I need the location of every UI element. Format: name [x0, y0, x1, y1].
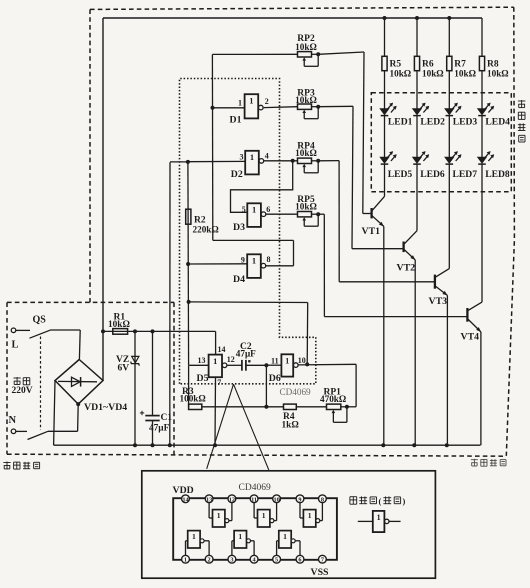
- inverter D3: [233, 203, 270, 233]
- wire column LED to VT3 collector: [448, 164, 450, 268]
- svg-text:C1: C1: [161, 413, 173, 423]
- label VSS: [311, 567, 330, 578]
- svg-text:5: 5: [275, 557, 278, 564]
- transistor VT4: [461, 302, 483, 342]
- pinout inverter gate pins 11-10: [254, 503, 277, 527]
- node VZ to ground rail: [133, 443, 137, 447]
- svg-text:11: 11: [271, 357, 279, 366]
- power supply box dashed top edge: [7, 301, 174, 303]
- wire RP2 right to VT1 base: [318, 52, 371, 214]
- node VT1 emitter ground junction: [381, 443, 385, 447]
- inverter D6: [266, 354, 305, 384]
- svg-text:9: 9: [241, 256, 245, 265]
- node C1 to ground rail: [151, 443, 155, 447]
- wire column LED to VT4 collector: [481, 164, 483, 302]
- power supply box dashed right edge: [173, 302, 175, 455]
- svg-text:1: 1: [238, 99, 242, 108]
- pin 9 circle: [296, 495, 304, 503]
- svg-text:1: 1: [262, 511, 266, 520]
- svg-text:LED1: LED1: [388, 117, 413, 128]
- pin 4 circle: [250, 555, 258, 563]
- svg-text:1: 1: [283, 532, 287, 541]
- svg-text:N: N: [9, 415, 17, 426]
- label inverter (fan xiang qi / NOT gate): [350, 496, 406, 506]
- svg-text:10: 10: [273, 496, 279, 503]
- wire column LED to VT1 collector: [384, 164, 386, 196]
- svg-text:10kΩ: 10kΩ: [487, 69, 509, 79]
- svg-text:1: 1: [377, 513, 381, 522]
- svg-text:8: 8: [267, 255, 271, 264]
- svg-text:D5: D5: [197, 373, 209, 384]
- wire VT1 emitter to ground rail: [383, 226, 385, 445]
- svg-text:6V: 6V: [118, 364, 130, 374]
- wire RP4 right to VT3 base: [318, 161, 434, 282]
- LED LED8: [478, 151, 510, 180]
- node feedback junction on R2 chain: [187, 300, 191, 304]
- svg-text:LED7: LED7: [453, 169, 478, 180]
- wire RP1 right lead: [347, 406, 356, 408]
- LED LED7: [445, 151, 477, 180]
- wire from bridge AC bottom to switch: [77, 404, 80, 431]
- LED display box dashed outline: [371, 93, 511, 192]
- wire VT2 emitter to ground rail: [414, 260, 416, 445]
- svg-text:2: 2: [208, 557, 211, 564]
- svg-text:10kΩ: 10kΩ: [390, 69, 412, 79]
- LED LED3: [445, 103, 478, 128]
- wire C2 node down to R3-R4 junction: [265, 365, 267, 407]
- wire R2 chain vertical (D2-in / R2 / D4-in / D5-in): [187, 162, 190, 365]
- svg-text:3: 3: [230, 557, 233, 564]
- svg-text:13: 13: [198, 356, 206, 365]
- svg-text:D1: D1: [230, 114, 242, 125]
- inverter D5: [189, 355, 235, 384]
- svg-text:6: 6: [298, 557, 301, 564]
- CD4069 IC dotted outline: [180, 79, 316, 384]
- node junction of bridge + with R1 wire: [101, 329, 105, 333]
- callout line left from IC outline to pinout box: [207, 384, 234, 469]
- svg-text:CD4069: CD4069: [239, 483, 271, 493]
- wire D5 pin 7 to ground: [215, 377, 221, 445]
- wire RP2-left / D1-in / D4-out vertical: [211, 54, 213, 240]
- resistor R8: [479, 18, 508, 109]
- label CD4069 (IC designator near D6): [280, 387, 312, 397]
- svg-text:LED4: LED4: [485, 117, 510, 128]
- svg-text:7: 7: [217, 378, 221, 387]
- capacitor C1: [140, 331, 173, 445]
- svg-text:1: 1: [213, 356, 217, 366]
- svg-text:VSS: VSS: [311, 567, 330, 578]
- resistor R5: [382, 18, 411, 109]
- power supply box dashed left edge: [6, 302, 8, 454]
- svg-text:12: 12: [229, 496, 235, 503]
- wire bridge - output to ground rail: [54, 381, 55, 446]
- svg-text:1: 1: [184, 557, 187, 564]
- wire column between LED rows col4: [481, 116, 483, 158]
- pinout inverter gate pins 5-6: [277, 531, 300, 556]
- label QS: [33, 315, 47, 326]
- capacitor C2: [227, 342, 267, 371]
- label AC 220V: [12, 377, 33, 396]
- bottom dashed border shared by power and control boxes: [7, 454, 506, 456]
- svg-text:VT2: VT2: [397, 262, 416, 273]
- svg-text:LED5: LED5: [388, 169, 413, 180]
- wire column between LED rows col3: [448, 116, 450, 158]
- terminal L: [11, 328, 18, 351]
- svg-text:1: 1: [252, 256, 256, 266]
- svg-text:9: 9: [298, 496, 301, 503]
- LED LED4: [478, 103, 511, 128]
- pin 11 circle: [250, 495, 258, 503]
- svg-text:8: 8: [321, 496, 324, 503]
- wire ground bottom rail: [54, 444, 481, 446]
- svg-text:): ): [403, 496, 406, 506]
- wire D6 output to RP1 right side: [298, 364, 356, 407]
- wire D2 output to RP4: [264, 160, 298, 162]
- svg-text:11: 11: [251, 496, 257, 503]
- svg-text:10kΩ: 10kΩ: [295, 95, 317, 105]
- node bridge AC bottom junction: [76, 402, 80, 406]
- potentiometer RP5: [295, 195, 320, 226]
- label VDD: [173, 485, 194, 496]
- terminal N: [9, 415, 17, 434]
- svg-text:QS: QS: [33, 315, 47, 326]
- node top rail to R7 column: [447, 16, 451, 20]
- svg-text:D2: D2: [231, 169, 243, 180]
- svg-text:6: 6: [266, 205, 270, 214]
- pin 1 circle: [182, 555, 190, 563]
- svg-text:10kΩ: 10kΩ: [295, 148, 317, 158]
- svg-text:10kΩ: 10kΩ: [454, 69, 476, 79]
- pin 12 circle: [228, 495, 236, 503]
- switch QS lower blade: [16, 431, 78, 439]
- svg-text:1: 1: [249, 96, 253, 106]
- wire column LED to VT2 collector: [416, 164, 418, 231]
- svg-text:D3: D3: [233, 222, 245, 233]
- svg-text:220V: 220V: [12, 386, 33, 396]
- svg-text:(: (: [379, 496, 382, 506]
- resistor R7: [447, 18, 476, 109]
- potentiometer RP3: [295, 89, 320, 119]
- potentiometer RP2: [212, 34, 320, 67]
- wire +6V to D5 pin 14: [216, 331, 226, 354]
- switch QS upper blade: [16, 330, 80, 338]
- pin 13 circle: [205, 495, 213, 503]
- inverter D2: [188, 151, 269, 180]
- pin 2 circle: [205, 555, 213, 563]
- svg-text:LED6: LED6: [420, 169, 445, 180]
- node D1 input junction: [211, 106, 215, 110]
- node x170 line to ground rail: [168, 443, 172, 447]
- svg-text:1: 1: [252, 205, 256, 215]
- resistor R2: [186, 209, 219, 234]
- svg-text:1: 1: [250, 152, 254, 162]
- node D4 input junction: [186, 262, 190, 266]
- svg-text:D6: D6: [269, 373, 281, 384]
- svg-text:47μF: 47μF: [236, 349, 256, 359]
- potentiometer RP4: [295, 142, 320, 173]
- pin 5 circle: [273, 555, 281, 563]
- wire from switch to bridge AC top: [78, 330, 81, 360]
- node VT3 emitter ground junction: [445, 443, 449, 447]
- svg-text:VT3: VT3: [429, 296, 448, 307]
- zener diode VZ: [116, 331, 139, 445]
- svg-text:VDD: VDD: [173, 485, 194, 496]
- node R1 wire to C1 junction: [151, 329, 155, 333]
- control circuit dashed border (left edge): [89, 9, 91, 302]
- svg-text:4: 4: [265, 152, 269, 161]
- wire oscillator feedback horizontal y302: [189, 302, 308, 365]
- wire RP3 right to VT2 base: [318, 106, 403, 248]
- node R1 to VZ junction: [133, 329, 137, 333]
- callout line right from IC outline to pinout box: [234, 384, 269, 470]
- svg-text:VT1: VT1: [362, 226, 381, 237]
- wire +V top rail: [103, 17, 482, 19]
- LED LED5: [380, 151, 412, 180]
- node VT2 emitter ground junction: [412, 443, 416, 447]
- node C2 / D6 input / R4 junction: [264, 363, 268, 367]
- svg-text:10: 10: [298, 356, 306, 365]
- pinout inverter gate pins 13-12: [209, 503, 232, 527]
- node top rail to R6 column: [415, 16, 419, 20]
- svg-text:1: 1: [192, 532, 196, 541]
- resistor R3: [180, 365, 267, 409]
- svg-text:VT4: VT4: [461, 331, 480, 342]
- node R3/R4 junction: [264, 405, 268, 409]
- label control circuit (kong zhi xian lu): [471, 459, 506, 466]
- svg-text:47μF: 47μF: [149, 424, 170, 434]
- LED LED2: [413, 103, 446, 128]
- pinout inverter gate pins 1-2: [186, 531, 210, 556]
- wire VT3 emitter to ground rail: [446, 295, 448, 445]
- svg-text:10kΩ: 10kΩ: [108, 320, 130, 330]
- wire D3 output to RP5: [266, 213, 298, 215]
- wire column between LED rows col1: [384, 116, 386, 158]
- node pin7 ground junction: [213, 443, 217, 447]
- CD4069 pinout outer box: [142, 471, 436, 578]
- resistor R4: [266, 404, 326, 430]
- potentiometer RP1: [320, 387, 349, 422]
- switch QS linkage dashed line: [40, 337, 42, 431]
- svg-text:7: 7: [321, 557, 324, 564]
- resistor R1: [103, 313, 216, 335]
- pin 7 circle: [319, 555, 327, 563]
- wire column between LED rows col2: [416, 116, 418, 158]
- node D6 output junction: [305, 362, 309, 366]
- pinout inverter gate pins 9-8: [300, 503, 322, 527]
- svg-text:1: 1: [308, 511, 312, 520]
- svg-text:13: 13: [206, 496, 212, 503]
- svg-text:10kΩ: 10kΩ: [295, 42, 317, 52]
- svg-text:L: L: [12, 340, 19, 351]
- svg-text:1: 1: [285, 357, 289, 366]
- svg-text:VD1~VD4: VD1~VD4: [84, 402, 127, 413]
- svg-text:470kΩ: 470kΩ: [320, 394, 346, 404]
- resistor R6: [414, 18, 443, 109]
- pin 6 circle: [296, 555, 304, 563]
- svg-text:LED3: LED3: [453, 117, 478, 128]
- svg-text:10kΩ: 10kΩ: [422, 69, 444, 79]
- pinout inverter gate pins 3-4: [232, 531, 254, 556]
- pin 10 circle: [273, 495, 281, 503]
- wire D1 output to RP3: [264, 106, 298, 109]
- node top rail to R5 column: [383, 16, 387, 20]
- wire RP5 right to VT4 base: [318, 214, 466, 316]
- standalone inverter symbol: [358, 511, 401, 532]
- inverter D1: [213, 94, 269, 125]
- svg-text:D4: D4: [233, 274, 245, 285]
- LED LED1: [380, 103, 413, 128]
- svg-text:1: 1: [217, 511, 221, 520]
- bridge rectifier VD1~VD4: [55, 360, 103, 405]
- wire D2 input to ground-side vertical: [170, 162, 188, 445]
- label VD1~VD4: [84, 402, 127, 413]
- svg-text:12: 12: [227, 355, 235, 364]
- svg-text:14: 14: [218, 345, 226, 354]
- pin 14 circle: [182, 495, 190, 503]
- svg-text:3: 3: [240, 153, 244, 162]
- node D2 input junction: [186, 160, 190, 164]
- svg-text:14: 14: [182, 496, 189, 503]
- label CD4069 pinout title: [239, 483, 271, 493]
- label power supply circuit (gong dian xian lu): [3, 462, 39, 470]
- svg-text:220kΩ: 220kΩ: [193, 225, 219, 235]
- svg-text:LED2: LED2: [420, 117, 445, 128]
- wire D4 output loop: [213, 240, 294, 265]
- svg-text:LED8: LED8: [485, 169, 510, 180]
- svg-text:10kΩ: 10kΩ: [295, 202, 317, 212]
- svg-text:1kΩ: 1kΩ: [282, 420, 300, 430]
- svg-text:5: 5: [242, 205, 246, 214]
- node D2 output to D3 branch: [291, 159, 295, 163]
- CD4069 IC body box: [173, 498, 337, 560]
- svg-text:CD4069: CD4069: [280, 387, 312, 397]
- pin 3 circle: [228, 555, 236, 563]
- control circuit dashed border (top edge): [90, 7, 514, 9]
- svg-text:1: 1: [238, 532, 242, 541]
- LED LED6: [413, 151, 445, 180]
- pin 8 circle: [319, 495, 327, 503]
- control circuit dashed border (right edge): [506, 7, 514, 456]
- wire left vertical from top rail to bridge + output: [102, 18, 104, 381]
- transistor VT1: [362, 196, 385, 237]
- svg-text:100kΩ: 100kΩ: [180, 394, 206, 404]
- transistor VT2: [397, 231, 418, 274]
- svg-text:2: 2: [265, 97, 269, 106]
- label display circuit (xian shi xian lu) vertical: [518, 100, 526, 142]
- inverter D4: [188, 254, 270, 284]
- transistor VT3: [429, 269, 450, 307]
- wire D2 output to D3 input loop: [231, 161, 293, 213]
- wire VT4 emitter to ground rail: [480, 332, 482, 445]
